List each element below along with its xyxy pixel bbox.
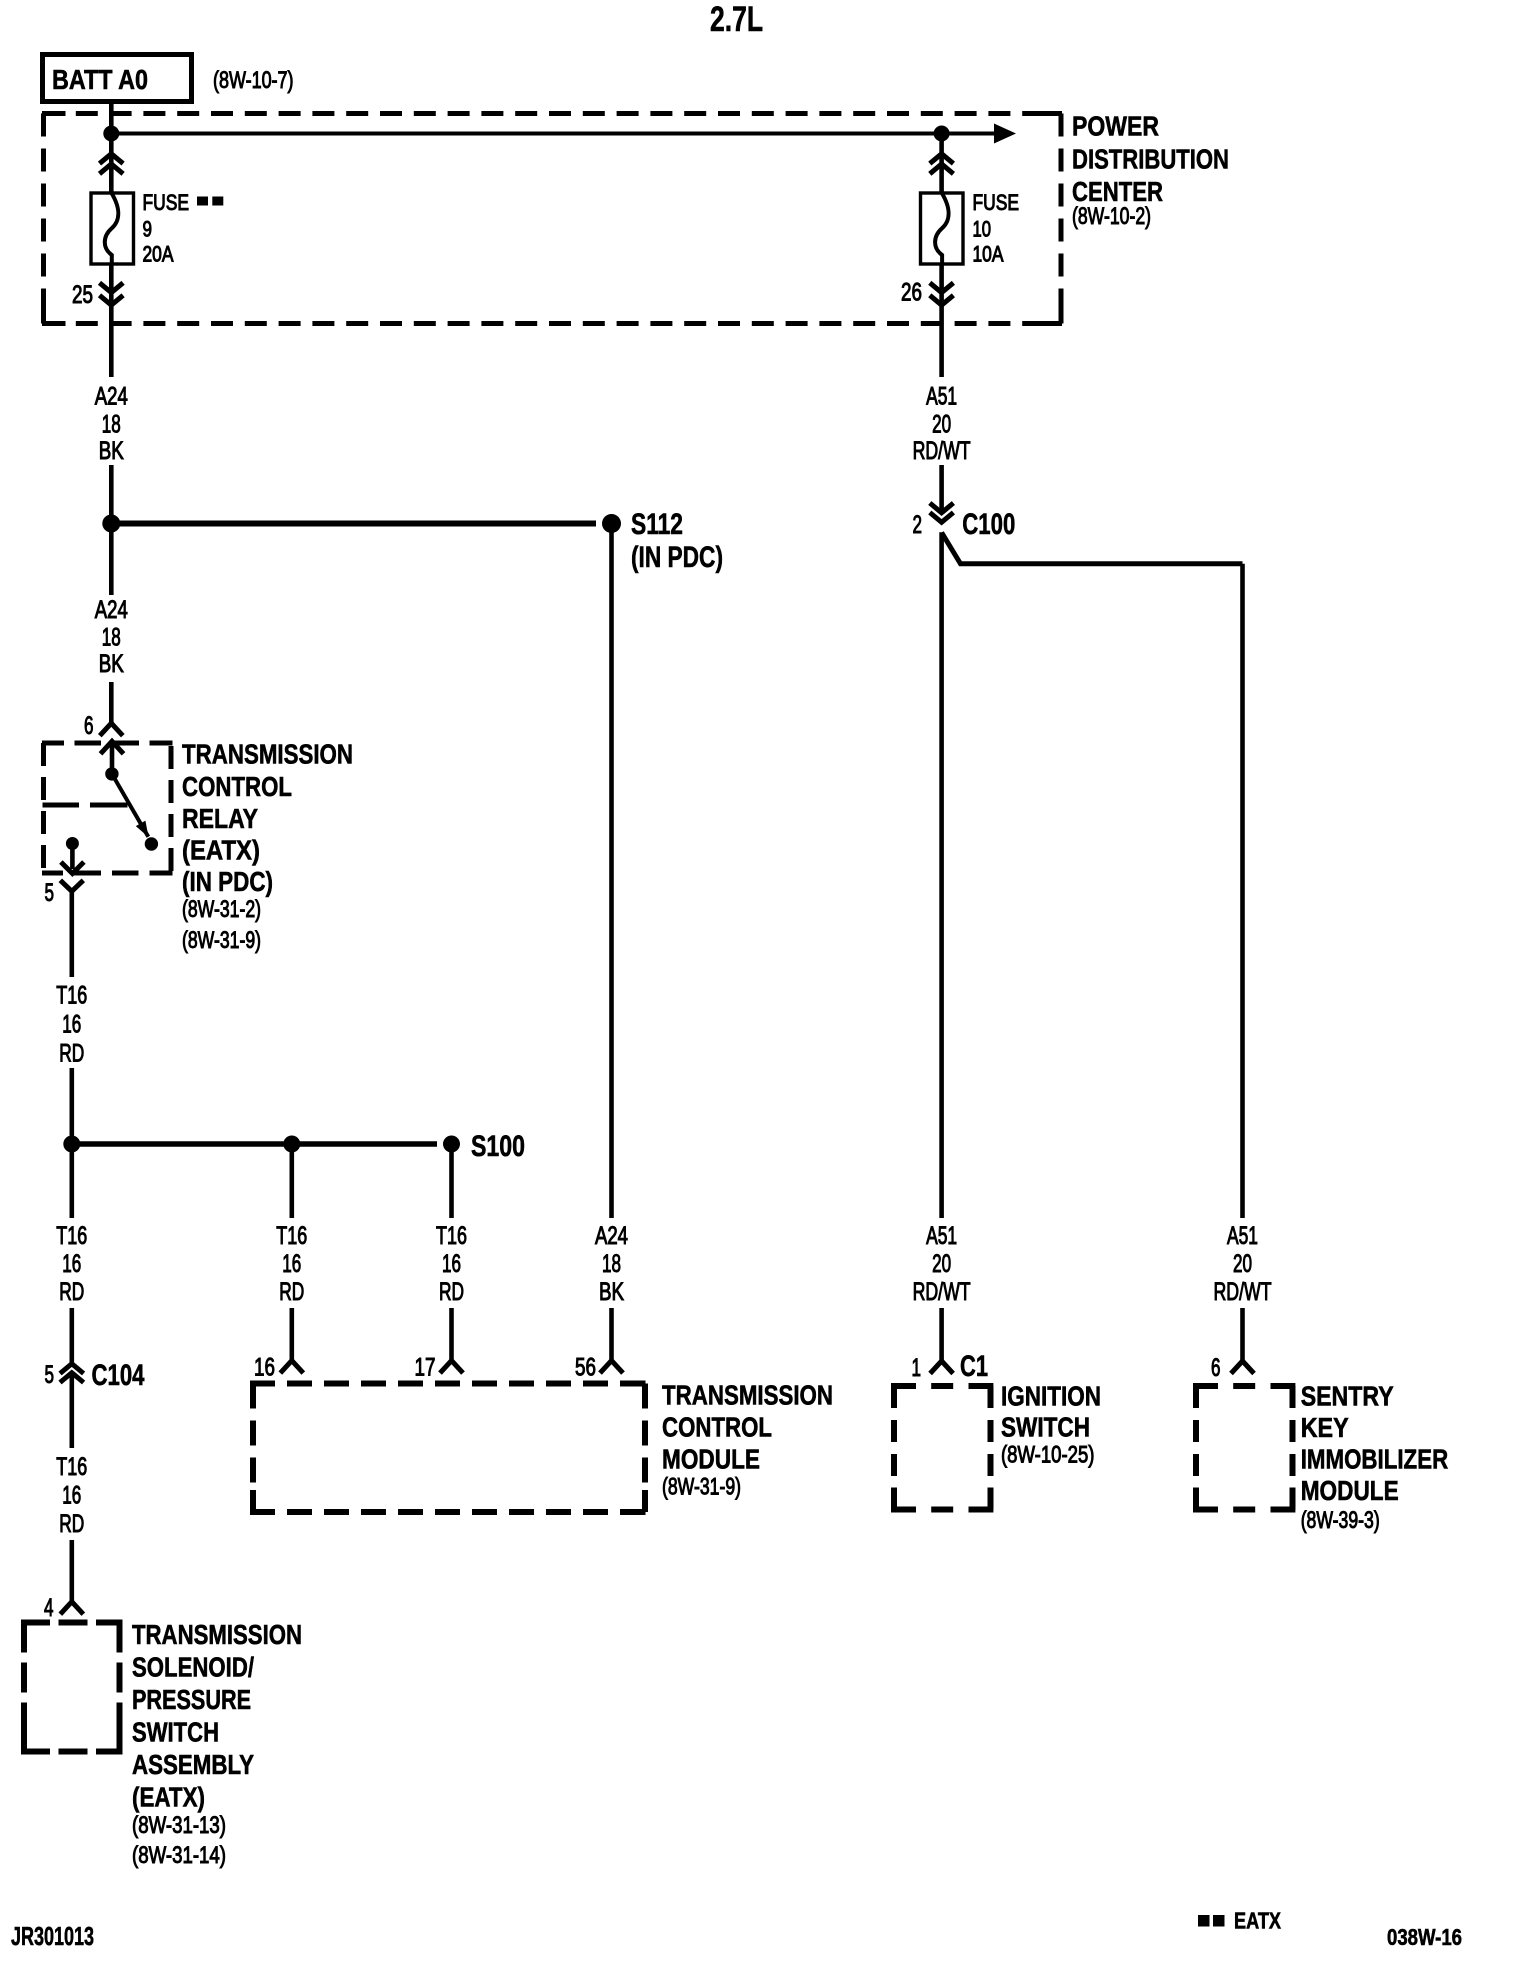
- reference (8W-10-7): [213, 67, 294, 94]
- battery feed box BATT A0: [43, 55, 192, 102]
- svg-text:16: 16: [62, 1482, 81, 1510]
- wire label A24 18 BK (lower): [95, 596, 128, 678]
- svg-text:EATX: EATX: [1234, 1908, 1282, 1934]
- sentry key immobilizer dashed box: [1193, 1386, 1296, 1510]
- svg-text:A24: A24: [95, 383, 128, 411]
- wire label A51 20 RD/WT (upper): [913, 383, 971, 466]
- svg-text:BK: BK: [99, 650, 124, 678]
- pin 6 connector at sentry module: [1231, 1308, 1254, 1374]
- wire dot to fuse 10: [939, 134, 944, 194]
- node S100 branch 1: [63, 1136, 80, 1153]
- svg-text:TRANSMISSION: TRANSMISSION: [662, 1380, 833, 1411]
- svg-text:(IN PDC): (IN PDC): [631, 541, 723, 574]
- svg-text:IMMOBILIZER: IMMOBILIZER: [1301, 1444, 1449, 1475]
- svg-text:18: 18: [602, 1250, 621, 1278]
- label TRANSMISSION CONTROL MODULE: [662, 1380, 833, 1501]
- svg-text:18: 18: [102, 624, 121, 652]
- wire label A51 20 RD/WT (ignition): [913, 1222, 971, 1306]
- wire col1 to C104: [70, 1308, 75, 1364]
- wire label A51 20 RD/WT (sentry): [1214, 1222, 1272, 1306]
- footer code JR301013: [11, 1921, 94, 1951]
- svg-text:RD/WT: RD/WT: [913, 1278, 971, 1306]
- wire label T16 16 RD (col 3): [436, 1222, 467, 1306]
- pin number 4: [44, 1594, 54, 1622]
- pin 1 connector at ignition switch: [930, 1308, 953, 1374]
- splice bus S100: [72, 1141, 437, 1147]
- wire fuse 9 to PDC exit: [109, 264, 114, 377]
- branch bus to sentry key module: [1240, 564, 1245, 1218]
- svg-text:KEY: KEY: [1301, 1412, 1349, 1443]
- svg-text:CONTROL: CONTROL: [662, 1412, 772, 1443]
- svg-text:20: 20: [1233, 1250, 1252, 1278]
- svg-text:6: 6: [84, 712, 94, 740]
- svg-text:6: 6: [1211, 1354, 1221, 1382]
- relay internal divider dashes: [43, 803, 128, 808]
- wire T16 col2: [289, 1144, 294, 1218]
- svg-text:BK: BK: [599, 1278, 624, 1306]
- wire to solenoid pin 4: [70, 1540, 75, 1602]
- svg-text:16: 16: [282, 1250, 301, 1278]
- svg-text:A51: A51: [926, 383, 957, 411]
- label S112 (IN PDC): [631, 508, 723, 574]
- svg-text:RD: RD: [59, 1278, 84, 1306]
- node junction at fuse 9 feed: [103, 126, 119, 142]
- svg-text:(8W-31-9): (8W-31-9): [662, 1474, 741, 1501]
- svg-text:RD: RD: [279, 1278, 304, 1306]
- pin 16 connector at TCM: [280, 1308, 303, 1373]
- svg-text:(EATX): (EATX): [182, 835, 260, 866]
- fuse 10 10A: [921, 193, 964, 264]
- svg-text:SENTRY: SENTRY: [1301, 1381, 1394, 1412]
- splice S112: [602, 514, 621, 533]
- svg-text:038W-16: 038W-16: [1387, 1924, 1462, 1950]
- wire label T16 16 RD (col 1 upper): [56, 982, 87, 1068]
- pin number 5: [45, 879, 55, 907]
- title 2.7L: [710, 0, 763, 39]
- transmission control relay dashed box: [42, 743, 173, 873]
- svg-text:T16: T16: [276, 1222, 307, 1250]
- pin number 6: [84, 712, 94, 740]
- legend squares EATX: [1198, 1908, 1282, 1934]
- label SENTRY KEY IMMOBILIZER MODULE: [1301, 1381, 1449, 1535]
- pin 25 exit chevrons: [100, 283, 124, 305]
- svg-text:(8W-10-7): (8W-10-7): [213, 67, 294, 94]
- svg-text:RD: RD: [59, 1040, 84, 1068]
- pin number 17: [415, 1354, 436, 1382]
- wire T16 col1 below S100: [70, 1144, 75, 1218]
- relay pin 5 internal dot and arrow: [61, 837, 84, 874]
- svg-text:RELAY: RELAY: [182, 803, 258, 834]
- svg-text:16: 16: [442, 1250, 461, 1278]
- svg-text:TRANSMISSION: TRANSMISSION: [132, 1619, 302, 1650]
- label C104: [92, 1359, 145, 1392]
- svg-text:(8W-39-3): (8W-39-3): [1301, 1507, 1380, 1534]
- svg-text:2.7L: 2.7L: [710, 0, 763, 39]
- svg-text:(IN PDC): (IN PDC): [182, 866, 273, 897]
- wire dot to fuse 9: [109, 134, 114, 194]
- svg-text:MODULE: MODULE: [662, 1444, 760, 1475]
- svg-text:S112: S112: [631, 508, 683, 541]
- svg-text:20A: 20A: [143, 242, 174, 267]
- pin number 16: [254, 1354, 275, 1382]
- svg-text:C1: C1: [960, 1350, 988, 1383]
- wire T16 to S100: [70, 1068, 75, 1144]
- svg-text:PRESSURE: PRESSURE: [132, 1684, 251, 1715]
- pin number 1: [912, 1354, 922, 1382]
- svg-text:A51: A51: [1227, 1222, 1258, 1250]
- power distribution center dashed box: [42, 114, 1062, 324]
- svg-text:C104: C104: [92, 1359, 145, 1392]
- wire T16 from relay: [70, 891, 75, 977]
- svg-text:TRANSMISSION: TRANSMISSION: [182, 739, 353, 770]
- wire label A24 18 BK (bottom): [595, 1222, 628, 1306]
- svg-text:16: 16: [62, 1011, 81, 1039]
- pin number 56: [575, 1354, 596, 1382]
- wire T16 col3: [449, 1144, 454, 1218]
- svg-text:5: 5: [45, 879, 55, 907]
- pin number 26: [901, 279, 922, 307]
- wire C104 down: [70, 1373, 75, 1448]
- splice S100: [443, 1136, 460, 1153]
- fuse 9 20A: [91, 193, 134, 264]
- svg-text:(8W-10-2): (8W-10-2): [1072, 203, 1151, 230]
- svg-text:POWER: POWER: [1072, 111, 1159, 142]
- wire A51 to C100: [939, 465, 944, 513]
- svg-text:SOLENOID/: SOLENOID/: [132, 1651, 254, 1682]
- label C100: [962, 508, 1015, 541]
- svg-text:16: 16: [62, 1250, 81, 1278]
- splice bus to S112: [111, 521, 596, 527]
- svg-text:T16: T16: [56, 1453, 87, 1481]
- svg-text:A51: A51: [926, 1222, 957, 1250]
- svg-text:BK: BK: [99, 437, 124, 465]
- svg-text:T16: T16: [436, 1222, 467, 1250]
- svg-text:MODULE: MODULE: [1301, 1475, 1399, 1506]
- pin number 6 at sentry: [1211, 1354, 1221, 1382]
- wire fuse 10 to PDC exit: [939, 264, 944, 377]
- wire C100 to ignition switch: [939, 532, 944, 1218]
- branch diagonal from C100: [942, 533, 1243, 564]
- svg-text:RD: RD: [439, 1278, 464, 1306]
- svg-text:(8W-10-25): (8W-10-25): [1001, 1442, 1095, 1469]
- legend squares after FUSE: [197, 197, 223, 206]
- svg-text:T16: T16: [56, 1222, 87, 1250]
- pin 26 exit chevrons: [930, 283, 954, 305]
- relay pin 6 terminal arrow: [101, 741, 124, 768]
- svg-text:S100: S100: [471, 1130, 525, 1163]
- pin number 2: [913, 511, 923, 539]
- wire label T16 16 RD (col 2): [276, 1222, 307, 1306]
- svg-text:ASSEMBLY: ASSEMBLY: [132, 1749, 254, 1780]
- svg-text:SWITCH: SWITCH: [132, 1716, 219, 1747]
- connector C104 chevrons: [60, 1364, 84, 1383]
- svg-text:RD: RD: [59, 1510, 84, 1538]
- label IGNITION SWITCH: [1001, 1381, 1101, 1469]
- svg-text:A24: A24: [95, 596, 128, 624]
- pin 56 connector at TCM: [600, 1308, 623, 1373]
- transmission solenoid assembly dashed box: [21, 1623, 123, 1752]
- wire A24 from S112 down: [609, 524, 614, 1219]
- svg-text:25: 25: [72, 281, 93, 309]
- svg-text:20: 20: [932, 1250, 951, 1278]
- fuse 10 value labels FUSE 10 10A: [973, 190, 1020, 267]
- svg-text:56: 56: [575, 1354, 596, 1382]
- svg-text:(8W-31-13): (8W-31-13): [132, 1812, 226, 1839]
- pin 6 connector at relay: [100, 723, 123, 736]
- svg-text:IGNITION: IGNITION: [1001, 1381, 1101, 1412]
- label C1: [960, 1350, 988, 1383]
- node junction at fuse 10 feed: [934, 126, 950, 142]
- sheet number 038W-16: [1387, 1924, 1462, 1950]
- label TRANSMISSION SOLENOID/ PRESSURE SWITCH ASSEMBLY (EATX): [132, 1619, 302, 1869]
- transmission control module dashed box: [250, 1384, 648, 1513]
- node junction on A24 at S112 tie: [102, 515, 120, 533]
- wire A24 to S112 junction: [109, 465, 114, 595]
- label POWER DISTRIBUTION CENTER: [1072, 111, 1229, 231]
- fuse 9 terminal chevrons: [100, 154, 124, 174]
- svg-text:JR301013: JR301013: [11, 1921, 94, 1951]
- svg-text:26: 26: [901, 279, 922, 307]
- ignition switch dashed box: [891, 1386, 994, 1510]
- svg-text:9: 9: [143, 217, 153, 242]
- svg-text:DISTRIBUTION: DISTRIBUTION: [1072, 144, 1229, 175]
- svg-text:CONTROL: CONTROL: [182, 771, 292, 802]
- wire label T16 16 RD (solenoid feed): [56, 1453, 87, 1538]
- svg-text:10A: 10A: [973, 242, 1004, 267]
- wire label T16 16 RD (col 1 lower): [56, 1222, 87, 1306]
- svg-text:(8W-31-2): (8W-31-2): [182, 896, 261, 923]
- connector C100 chevrons: [930, 503, 954, 522]
- relay movable contact arm: [112, 774, 149, 837]
- svg-text:10: 10: [973, 217, 992, 242]
- svg-text:2: 2: [913, 511, 923, 539]
- svg-text:17: 17: [415, 1354, 436, 1382]
- svg-text:5: 5: [45, 1361, 55, 1389]
- svg-text:RD/WT: RD/WT: [913, 437, 971, 465]
- pin 5 connector below relay: [60, 880, 83, 891]
- svg-text:1: 1: [912, 1354, 922, 1382]
- wire A24 to relay pin 6: [109, 682, 114, 723]
- svg-text:(8W-31-9): (8W-31-9): [182, 927, 261, 954]
- wire from BATT A0 into PDC: [109, 101, 114, 134]
- fuse 10 terminal chevrons: [930, 154, 954, 174]
- svg-text:RD/WT: RD/WT: [1214, 1278, 1272, 1306]
- bus wire across PDC: [111, 132, 994, 136]
- pin number 5 at C104: [45, 1361, 55, 1389]
- svg-text:T16: T16: [56, 982, 87, 1010]
- svg-text:(EATX): (EATX): [132, 1781, 205, 1812]
- svg-text:4: 4: [44, 1594, 54, 1622]
- relay contact throw node: [145, 837, 158, 850]
- svg-text:FUSE: FUSE: [973, 190, 1020, 215]
- svg-text:FUSE: FUSE: [143, 190, 190, 215]
- pin number 25: [72, 281, 93, 309]
- pin 4 connector at solenoid: [60, 1602, 83, 1615]
- relay contact common node: [105, 767, 118, 780]
- node S100 branch 2: [283, 1136, 300, 1153]
- svg-text:A24: A24: [595, 1222, 628, 1250]
- svg-text:16: 16: [254, 1354, 275, 1382]
- svg-text:20: 20: [932, 411, 951, 439]
- label S100: [471, 1130, 525, 1163]
- label TRANSMISSION CONTROL RELAY (EATX) (IN PDC): [182, 739, 353, 955]
- svg-text:18: 18: [102, 411, 121, 439]
- svg-text:(8W-31-14): (8W-31-14): [132, 1842, 226, 1869]
- svg-text:C100: C100: [962, 508, 1015, 541]
- svg-text:SWITCH: SWITCH: [1001, 1412, 1090, 1443]
- wire label A24 18 BK (upper): [95, 383, 128, 466]
- svg-text:BATT A0: BATT A0: [52, 64, 148, 95]
- pin 17 connector at TCM: [440, 1308, 463, 1373]
- fuse 9 value labels FUSE 9 20A: [143, 190, 190, 267]
- arrow continuation of bus: [994, 124, 1016, 144]
